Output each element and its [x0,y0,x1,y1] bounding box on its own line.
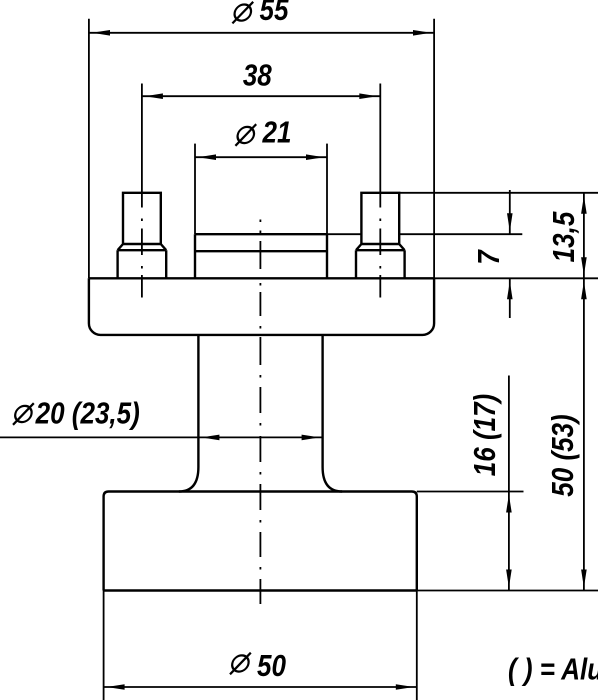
centerline: right bolt axis [379,219,381,298]
svg-text:21: 21 [262,116,292,151]
node: ⌀21 label [235,124,256,146]
svg-text:20 (23,5): 20 (23,5) [35,396,140,431]
wire: 38 dimension line [142,95,380,97]
svg-text:50: 50 [257,649,286,684]
wire: base top ext line [417,491,524,493]
wire: ⌀21 ext line left [194,144,196,235]
wire: dim ext line right of ⌀55 [433,19,435,279]
wire: ⌀21 dimension line [195,156,327,158]
wire: 13,5 top ext line (bolt top level) [399,192,598,194]
wire: 13,5 / 50(53) dimension line [583,193,585,591]
node: ⌀50 label [230,653,251,675]
svg-text:13,5: 13,5 [547,211,582,263]
wire: plate top ext line to right [434,277,598,279]
wire: ⌀50 ext line left [103,591,105,700]
component: top plate ⌀55 outline [89,278,434,335]
component: right screw M6 [356,193,405,278]
svg-text:7: 7 [472,248,507,264]
centerline: left bolt axis [141,219,143,298]
wire: 7 top ext line (boss top level) [327,233,362,235]
svg-text:( ) = Alu: ( ) = Alu [508,652,598,687]
centerline: main part axis [259,220,261,605]
wire: ⌀21 ext line right [326,144,328,235]
wire: 38 ext line left (bolt axis) [141,84,143,208]
svg-text:16 (17): 16 (17) [468,394,503,476]
svg-text:55: 55 [260,0,290,28]
component: stem ⌀20 with fillets [179,335,342,492]
svg-text:38: 38 [243,58,272,93]
component: left screw M6 [118,193,167,278]
wire: ⌀50 ext line right [416,591,418,700]
wire: 16(17) dimension line [508,376,510,591]
wire: 7 dimension line lower part [509,278,511,318]
arrows of 50(53) [581,281,587,299]
svg-text:50 (53): 50 (53) [546,414,581,496]
wire: ⌀55 dimension line [89,32,434,34]
wire: ⌀50 dimension line [104,686,417,688]
component: base cylinder ⌀50 [104,492,417,591]
node: ⌀20 (23,5) label [13,403,34,425]
wire: ⌀20 dimension line [0,436,323,438]
component: central boss ⌀21 [195,234,327,278]
wire: dim ext line left of ⌀55 [88,19,90,279]
wire: base bottom ext line [417,590,598,592]
wire: 38 ext line right (bolt axis) [379,84,381,208]
node: ⌀55 label [232,2,253,24]
wire: 7 dimension line upper part [509,190,511,234]
